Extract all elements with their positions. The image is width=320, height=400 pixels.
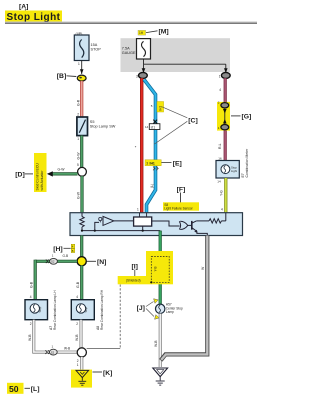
logic gate U2 (152, 221, 188, 230)
node H label (53, 246, 70, 253)
wire junction to ground G1 (77, 357, 82, 370)
connector tag C2 on cyan wire (145, 160, 161, 171)
svg-text:[F]: [F] (177, 187, 186, 194)
svg-text:G-B: G-B (29, 281, 33, 288)
svg-text:G-B: G-B (63, 254, 69, 258)
svg-text:15A: 15A (91, 43, 98, 47)
svg-text:50: 50 (9, 384, 19, 394)
svg-text:IH1: IH1 (159, 106, 163, 111)
ground G1 (highlighted) (71, 370, 92, 388)
connector node pin 1 (right) (219, 72, 230, 78)
svg-text:[C]: [C] (188, 117, 197, 124)
wire W-B left lamp to ground run (28, 320, 77, 352)
svg-text:W-B: W-B (154, 340, 158, 347)
connector S2 inline (W-B run) (45, 345, 70, 355)
svg-text:Stop Lamp SW: Stop Lamp SW (90, 124, 116, 128)
wire green node N to left branch (35, 254, 77, 261)
fuse F1 15A STOP label (I/P) (76, 32, 83, 36)
combination meter E7 label (rotated) (241, 148, 249, 178)
node N label (87, 259, 107, 266)
svg-text:[J]: [J] (137, 305, 145, 312)
resistor R1 inside sensor (80, 213, 84, 231)
svg-text:Light Failure Sensor: Light Failure Sensor (164, 207, 193, 211)
svg-text:1: 1 (219, 75, 221, 79)
svg-text:IH1: IH1 (150, 162, 155, 166)
svg-text:G-R: G-R (76, 99, 80, 106)
shield drain line to junction (87, 285, 121, 349)
wire green left branch down (29, 260, 35, 300)
fuse F1 15A STOP (74, 35, 101, 61)
svg-text:1: 1 (78, 62, 80, 66)
svg-text:14: 14 (217, 180, 221, 184)
svg-text:[B]: [B] (57, 73, 66, 80)
svg-text:Stop Light: Stop Light (7, 12, 61, 23)
svg-text:[N]: [N] (97, 259, 106, 266)
svg-text:STOP: STOP (91, 47, 102, 51)
svg-text:1H: 1H (139, 31, 144, 35)
svg-text:Combination Meter: Combination Meter (245, 148, 249, 178)
node C label with pointer lines (155, 107, 198, 144)
svg-text:G-W: G-W (58, 167, 66, 171)
wire cyan to light failure sensor (144, 80, 156, 216)
svg-text:[G]: [G] (242, 114, 252, 121)
svg-text:[D]: [D] (15, 171, 24, 178)
svg-text:Light: Light (231, 169, 237, 173)
light failure sensor S8 tag (highlighted) (163, 202, 199, 210)
svg-text:[A]: [A] (19, 4, 28, 11)
op-amp U1 comparator (95, 216, 134, 230)
svg-text:Stop: Stop (38, 306, 42, 312)
svg-text:IJ1: IJ1 (151, 125, 156, 129)
wire red to light failure sensor relay (135, 78, 142, 215)
svg-text:Y-B: Y-B (154, 266, 158, 271)
lamp H57 center stop (154, 299, 183, 320)
svg-text:4: 4 (219, 88, 221, 92)
svg-text:G-B: G-B (76, 281, 80, 288)
ground junction circle (77, 348, 86, 357)
svg-text:Stop: Stop (84, 306, 88, 312)
svg-text:7.5A: 7.5A (122, 46, 130, 50)
node E label (162, 160, 182, 167)
relay coil K1 (134, 213, 152, 231)
svg-text:S2: S2 (51, 350, 55, 354)
node L label (25, 386, 40, 393)
svg-text:(Shielded): (Shielded) (126, 279, 141, 283)
node F label (177, 187, 186, 203)
node B (77, 75, 86, 81)
svg-text:[I]: [I] (132, 264, 138, 271)
node I label (132, 264, 138, 276)
resistor R2 inside sensor (196, 213, 226, 223)
lamp A7 label (rotated) (49, 290, 57, 330)
title rule (5, 22, 257, 24)
svg-text:4: 4 (76, 295, 78, 299)
svg-text:4: 4 (221, 208, 223, 212)
junction block J/B grey box top right (121, 38, 231, 72)
connector node pin 3 (left) (136, 72, 147, 78)
svg-text:2: 2 (77, 359, 79, 363)
svg-text:Rear Combination Lamp RH: Rear Combination Lamp RH (100, 289, 104, 330)
node J label (137, 302, 154, 317)
svg-text:2: 2 (77, 113, 79, 117)
wire W-B center stop lamp down (154, 314, 160, 367)
lamp A7 rear combination LH (25, 300, 48, 320)
svg-text:S5: S5 (90, 120, 95, 124)
wire W-B right lamp down (75, 320, 81, 348)
lamp A8 label (rotated) (96, 289, 104, 330)
ground G2 (153, 368, 168, 385)
page number 50 (7, 383, 24, 394)
svg-text:W-B: W-B (64, 347, 70, 351)
wire green node N to right lamp (76, 266, 82, 300)
svg-text:R-L: R-L (218, 143, 222, 149)
wire fuse F1 to node B (78, 60, 84, 74)
connector G (highlighted) (217, 101, 230, 131)
node B label (57, 73, 77, 80)
svg-text:4: 4 (30, 295, 32, 299)
lamp A8 rear combination RH (71, 300, 94, 320)
svg-text:[K]: [K] (103, 370, 112, 377)
svg-text:2: 2 (30, 322, 32, 326)
svg-text:Y-G: Y-G (220, 190, 224, 196)
svg-text:[M]: [M] (159, 29, 169, 36)
connector IJ1 on cyan wire (145, 120, 160, 130)
svg-text:1: 1 (137, 208, 139, 212)
node D label (15, 171, 33, 178)
svg-text:Skid Control ECU: Skid Control ECU (36, 163, 40, 191)
combination meter E7 box (216, 156, 239, 183)
svg-text:[L]: [L] (31, 386, 40, 393)
svg-text:(L): (L) (150, 184, 154, 188)
wire fuse F2 distribution (142, 59, 228, 73)
svg-text:5: 5 (77, 163, 79, 167)
wire green sensor to center stop lamp (159, 231, 162, 305)
svg-text:GAUGE: GAUGE (122, 51, 136, 55)
svg-text:G-W: G-W (76, 191, 80, 199)
node G label (231, 114, 251, 121)
svg-text:with Actuator: with Actuator (40, 170, 44, 191)
svg-text:2: 2 (76, 322, 78, 326)
wire green sensor to node N (80, 236, 83, 259)
svg-text:[E]: [E] (173, 160, 182, 167)
wire Y-G meter to light failure sensor (220, 178, 226, 213)
svg-text:[H]: [H] (53, 246, 62, 253)
wire thick grey sensor to ground G2 (161, 236, 208, 361)
node M tag (138, 30, 146, 35)
junction node (circle) below S5 (77, 163, 86, 176)
node H tags (71, 244, 75, 253)
wire junction to skid control ECU (green arrow left) (47, 167, 78, 176)
wire node B to stop lamp switch (pink) (76, 81, 81, 117)
wire junction to light failure sensor (green) (76, 176, 82, 213)
svg-text:W-B: W-B (75, 334, 79, 341)
connector tag C1 on cyan wire (151, 102, 164, 113)
svg-text:Lamp: Lamp (166, 310, 174, 314)
node K label (93, 370, 113, 377)
node N junction (yellow) (77, 257, 86, 266)
svg-text:1: 1 (77, 137, 79, 141)
svg-text:3: 3 (136, 75, 138, 79)
fuse F2 7.5A GAUGE (137, 39, 151, 59)
light failure sensor S8 box (70, 213, 243, 236)
transistor Q1 (188, 221, 208, 236)
wire violet combination meter feed (218, 78, 225, 160)
svg-text:14: 14 (145, 125, 149, 129)
wire sensor internal rail (81, 230, 160, 232)
shielded zone (highlighted) (118, 251, 173, 284)
svg-text:1: 1 (77, 363, 79, 367)
svg-text:Rear Combination Lamp LH: Rear Combination Lamp LH (53, 290, 57, 330)
node D skid control ECU (highlighted) (34, 153, 47, 192)
node A label (19, 4, 28, 13)
svg-text:16: 16 (218, 156, 222, 160)
svg-text:W-B: W-B (28, 334, 32, 341)
connector S2 inline (left green) (46, 253, 58, 264)
node M label (146, 29, 169, 36)
switch S5 stop lamp switch (77, 117, 116, 141)
svg-text:3: 3 (146, 162, 148, 166)
svg-text:G-W: G-W (76, 152, 80, 160)
svg-text:S2: S2 (51, 260, 55, 264)
wire switch S5 to junction (green) (76, 136, 81, 168)
title Stop Light (5, 11, 62, 23)
